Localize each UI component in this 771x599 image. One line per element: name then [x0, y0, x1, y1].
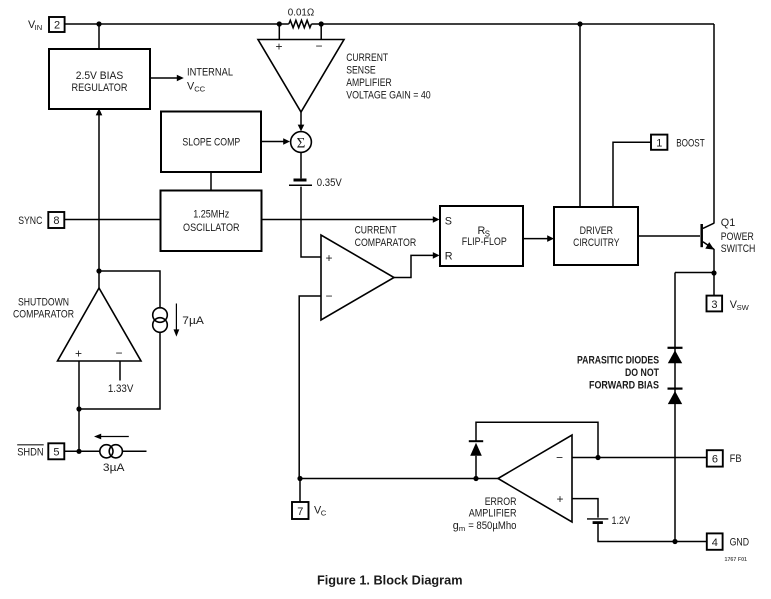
svg-text:SYNC: SYNC [18, 215, 42, 227]
block slope comp [161, 112, 261, 173]
svg-text:6: 6 [712, 454, 718, 466]
svg-text:FORWARD BIAS: FORWARD BIAS [589, 379, 659, 391]
wire error amp minus line to FB pin [572, 457, 707, 459]
label FB [730, 453, 742, 465]
wire top rail left [65, 23, 289, 25]
svg-text:CC: CC [194, 85, 205, 94]
label 3uA [103, 462, 125, 474]
wire Q1 emitter to VSW node [713, 249, 715, 273]
label S input [445, 215, 452, 227]
label current comparator [355, 225, 417, 250]
pin 3 VSW [707, 296, 723, 312]
svg-text:7: 7 [297, 506, 303, 518]
svg-text:5: 5 [53, 447, 59, 459]
svg-text:INTERNAL: INTERNAL [187, 66, 233, 78]
wire shutdown comparator output to regulator (arrow up) [96, 108, 103, 288]
svg-text:+: + [75, 347, 82, 361]
svg-text:GND: GND [730, 537, 750, 549]
svg-text:1.2V: 1.2V [612, 515, 631, 527]
battery 1.2V [587, 519, 608, 523]
current source 7uA [153, 308, 168, 333]
svg-text:COMPARATOR: COMPARATOR [355, 237, 417, 249]
svg-text:CURRENT: CURRENT [346, 52, 388, 64]
wire flip-flop to driver (arrow) [523, 235, 554, 242]
node clamp diode [473, 476, 478, 481]
wire driver to BOOST pin [613, 142, 651, 207]
node sense right [319, 21, 324, 26]
label GND [730, 537, 750, 549]
wire top rail to driver [579, 24, 581, 207]
svg-text:SHUTDOWN: SHUTDOWN [18, 296, 69, 308]
battery 0.35V [289, 180, 312, 185]
summer circle [291, 132, 312, 153]
svg-text:REGULATOR: REGULATOR [72, 82, 128, 94]
pin 8 SYNC [48, 212, 64, 228]
label VSW [730, 299, 750, 312]
label SYNC [18, 215, 42, 227]
wire branch to 7uA source [99, 271, 160, 309]
wire top rail right [311, 23, 714, 25]
op-amp current sense amplifier [258, 40, 344, 113]
label 1.33V [108, 383, 134, 395]
svg-text:SWITCH: SWITCH [721, 243, 756, 255]
wire clamp diode top to minus feedback [476, 422, 598, 457]
wire slope comp to oscillator [210, 172, 212, 191]
wire slope comp to summer (arrow) [261, 138, 290, 145]
node sense left [277, 21, 282, 26]
node GND [672, 539, 677, 544]
node VC [297, 476, 302, 481]
svg-text:DO NOT: DO NOT [625, 367, 659, 379]
svg-text:AMPLIFIER: AMPLIFIER [346, 77, 392, 89]
label 1767 F01 [725, 557, 748, 563]
svg-text:−: − [326, 289, 333, 303]
node shutdown output branch [96, 268, 101, 273]
svg-text:FB: FB [730, 453, 742, 465]
wire current comparator minus to VC node [299, 296, 321, 479]
svg-text:S: S [445, 215, 452, 227]
resistor sense stubs [279, 24, 321, 40]
wire right vertical to Q1 collector [713, 24, 715, 223]
transistor Q1 [702, 223, 715, 250]
svg-text:ERROR: ERROR [485, 496, 517, 508]
wire clamp diode lower stub [475, 456, 477, 479]
svg-text:Σ: Σ [297, 136, 306, 152]
wire oscillator to flip-flop S input [262, 216, 440, 223]
wire summer to 0.35V battery [300, 152, 302, 178]
resistor R sense 0.01 ohm [289, 20, 312, 27]
svg-text:−: − [556, 451, 563, 465]
block RS flip-flop [440, 206, 523, 266]
label 0.35V [317, 177, 343, 189]
block 2.5V bias regulator [49, 49, 150, 109]
label oscillator [183, 208, 240, 234]
block oscillator [161, 191, 262, 252]
current source 3uA [100, 445, 123, 458]
wire 0.35V battery to current comparator plus [301, 187, 321, 257]
pin 2 VIN [49, 17, 65, 32]
wire SHDN pin to 3uA source [65, 450, 101, 452]
label VIN [28, 19, 42, 32]
wire VC node to error amp output [300, 478, 498, 480]
svg-text:+: + [557, 492, 564, 506]
svg-text:SENSE: SENSE [346, 65, 376, 77]
svg-text:SW: SW [737, 303, 750, 312]
svg-text:PARASITIC DIODES: PARASITIC DIODES [577, 355, 659, 367]
svg-text:0.35V: 0.35V [317, 177, 343, 189]
label slope comp [182, 137, 240, 149]
wire VSW node to parasitic diodes [675, 272, 714, 274]
plus minus current comparator [326, 251, 333, 303]
svg-text:IN: IN [35, 23, 43, 32]
label RS flip-flop [462, 225, 507, 248]
svg-text:R: R [445, 251, 453, 263]
clamp diode D3 [469, 441, 483, 456]
arrow 3uA [94, 434, 129, 440]
label 0.01 ohm [288, 8, 315, 19]
label R input [445, 251, 453, 263]
svg-text:m: m [459, 524, 465, 533]
wire driver to Q1 base [638, 235, 700, 237]
svg-text:1: 1 [656, 138, 662, 150]
node SHDN [76, 449, 81, 454]
label SHDN with overline [17, 445, 44, 459]
svg-text:BOOST: BOOST [676, 137, 705, 149]
label BOOST [676, 137, 705, 149]
svg-text:3: 3 [711, 299, 717, 311]
wire VSW node to pin 3 [713, 273, 715, 296]
op-amp error amplifier [498, 435, 572, 522]
wire 1.33V reference stub [119, 361, 121, 381]
wire SYNC to oscillator [65, 219, 161, 221]
svg-text:DRIVER: DRIVER [580, 225, 614, 237]
svg-text:+: + [326, 251, 333, 265]
svg-text:FLIP-FLOP: FLIP-FLOP [462, 236, 507, 248]
caption figure 1 [317, 573, 463, 588]
svg-text:1.25MHz: 1.25MHz [193, 208, 229, 220]
svg-text:= 850µMho: = 850µMho [468, 520, 516, 532]
svg-text:AMPLIFIER: AMPLIFIER [469, 508, 517, 520]
wire VC node to pin 7 [299, 479, 301, 503]
plus minus shutdown comparator [75, 346, 123, 361]
label parasitic diodes [577, 355, 659, 392]
svg-text:Figure 1. Block Diagram: Figure 1. Block Diagram [317, 573, 463, 588]
op-amp shutdown comparator [58, 288, 142, 361]
svg-text:3µA: 3µA [103, 462, 125, 474]
label Q1 power switch [721, 217, 756, 255]
svg-text:8: 8 [53, 215, 59, 227]
svg-text:−: − [116, 346, 123, 360]
node VSW [711, 270, 716, 275]
pin 4 GND [707, 533, 723, 549]
svg-text:VOLTAGE GAIN = 40: VOLTAGE GAIN = 40 [346, 89, 431, 101]
node FB feedback [595, 455, 600, 460]
svg-text:1.33V: 1.33V [108, 383, 134, 395]
wire sense amp to summer (arrow) [298, 112, 305, 131]
parasitic diode D1 [668, 348, 683, 364]
svg-text:−: − [316, 39, 323, 53]
node 7uA return [76, 406, 81, 411]
svg-text:2.5V BIAS: 2.5V BIAS [76, 70, 124, 82]
label current sense amplifier [346, 52, 431, 101]
arrow 7uA [174, 304, 180, 337]
svg-text:4: 4 [712, 537, 718, 549]
svg-text:2: 2 [54, 19, 60, 31]
node VIN junction [96, 21, 101, 26]
label 2.5V bias regulator [72, 70, 128, 94]
pin 5 SHDN [48, 443, 64, 459]
label gm 850uMho [453, 520, 517, 533]
wire 1.2V battery to GND rail [598, 524, 707, 542]
node driver supply [577, 21, 582, 26]
wire VIN to regulator top [98, 24, 100, 49]
label driver circuitry [573, 225, 619, 249]
svg-text:7µA: 7µA [182, 315, 204, 327]
label 7uA [182, 315, 204, 327]
svg-text:CIRCUITRY: CIRCUITRY [573, 237, 619, 249]
label error amplifier [469, 496, 517, 520]
arrow internal vcc [150, 75, 184, 82]
op-amp current comparator [321, 235, 394, 320]
wire comparator plus input down to SHDN rail [78, 361, 80, 451]
parasitic diode D2 [668, 389, 683, 405]
svg-text:Q1: Q1 [721, 217, 735, 229]
label VC [314, 504, 327, 517]
pin 7 VC [292, 502, 309, 519]
svg-text:CURRENT: CURRENT [355, 225, 397, 237]
wire 3uA source right stub [123, 450, 147, 452]
svg-text:OSCILLATOR: OSCILLATOR [183, 222, 240, 234]
wire parasitic diode chain [674, 273, 676, 542]
svg-text:SLOPE COMP: SLOPE COMP [182, 137, 240, 149]
svg-text:0.01Ω: 0.01Ω [288, 8, 315, 19]
wire 7uA source bottom to comparator plus node [79, 332, 160, 409]
plus minus current sense amp [276, 39, 323, 54]
wire current comparator to flip-flop R input [394, 252, 440, 277]
svg-text:+: + [276, 40, 283, 54]
label internal vcc [187, 66, 233, 93]
label 1.2V [612, 515, 631, 527]
svg-text:POWER: POWER [721, 231, 754, 243]
wire error amp plus to 1.2V battery [572, 499, 598, 518]
svg-text:1767 F01: 1767 F01 [725, 557, 748, 563]
svg-text:COMPARATOR: COMPARATOR [13, 308, 74, 320]
svg-text:C: C [321, 509, 327, 518]
plus minus error amplifier [556, 451, 564, 507]
pin 6 FB [707, 450, 723, 466]
block driver circuitry [554, 207, 638, 265]
label shutdown comparator [13, 296, 74, 320]
svg-text:SHDN: SHDN [17, 446, 44, 458]
pin 1 BOOST [651, 135, 667, 150]
